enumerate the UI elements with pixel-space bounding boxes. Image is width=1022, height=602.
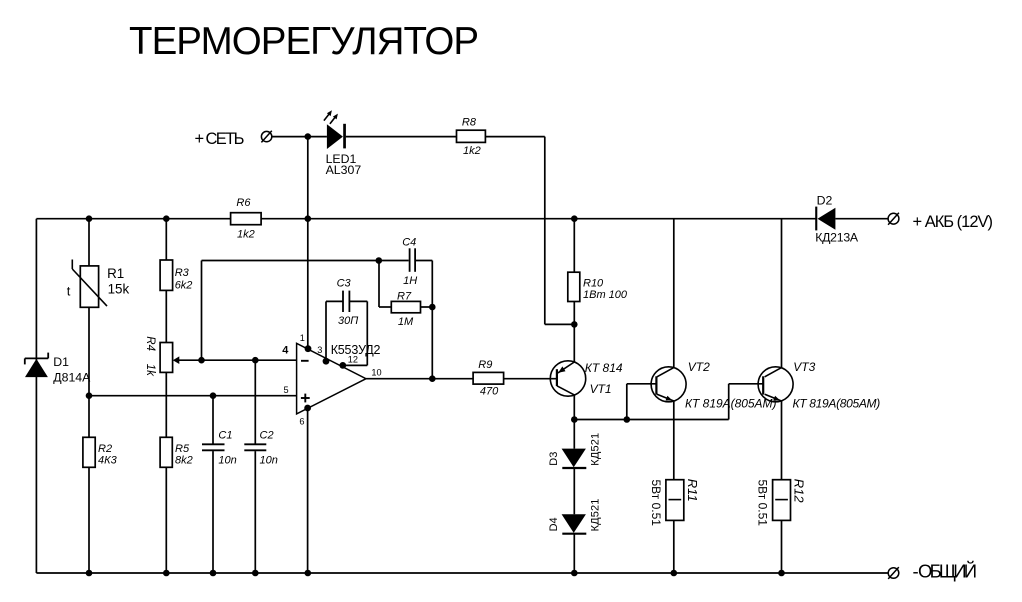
svg-text:R7: R7 (397, 291, 412, 303)
svg-text:R9: R9 (478, 359, 492, 371)
svg-text:VT1: VT1 (590, 382, 612, 396)
svg-text:КД521: КД521 (590, 433, 602, 466)
svg-text:AL307: AL307 (326, 163, 362, 177)
svg-text:R4: R4 (144, 336, 156, 351)
svg-text:30П: 30П (338, 315, 358, 327)
svg-text:D1: D1 (53, 355, 69, 369)
svg-text:5Вт 0.51: 5Вт 0.51 (756, 480, 770, 527)
svg-text:КТ 819А(805АМ): КТ 819А(805АМ) (793, 397, 881, 411)
svg-text:КТ 814: КТ 814 (585, 361, 623, 375)
svg-text:D3: D3 (548, 452, 560, 466)
svg-text:D2: D2 (817, 193, 833, 207)
svg-text:C3: C3 (337, 278, 352, 290)
svg-text:+ АКБ (12V): + АКБ (12V) (913, 213, 994, 231)
svg-text:D4: D4 (548, 517, 560, 531)
svg-text:R2: R2 (98, 443, 112, 455)
svg-text:10n: 10n (260, 454, 278, 466)
svg-text:- ОБЩИЙ: - ОБЩИЙ (913, 560, 978, 581)
svg-text:R5: R5 (175, 443, 190, 455)
svg-text:1М: 1М (398, 316, 414, 328)
svg-text:+ СЕТЬ: + СЕТЬ (195, 130, 245, 148)
svg-text:10: 10 (371, 368, 381, 378)
svg-text:15k: 15k (108, 282, 130, 297)
svg-text:VT2: VT2 (688, 360, 710, 374)
svg-text:6k2: 6k2 (175, 280, 193, 292)
svg-text:1Н: 1Н (403, 275, 417, 287)
svg-text:C4: C4 (402, 237, 416, 249)
svg-text:4: 4 (282, 345, 289, 357)
svg-text:8k2: 8k2 (175, 455, 193, 467)
svg-text:КТ 819А(805АМ): КТ 819А(805АМ) (685, 397, 777, 411)
svg-text:5Вт 0.51: 5Вт 0.51 (649, 480, 663, 527)
svg-text:ТЕРМОРЕГУЛЯТОР: ТЕРМОРЕГУЛЯТОР (129, 20, 479, 63)
svg-text:R3: R3 (175, 267, 190, 279)
svg-text:4К3: 4К3 (98, 455, 118, 467)
svg-text:VT3: VT3 (793, 360, 815, 374)
svg-text:10n: 10n (218, 454, 236, 466)
svg-text:R11: R11 (685, 479, 700, 502)
svg-text:C2: C2 (260, 430, 274, 442)
svg-text:3: 3 (317, 345, 322, 355)
svg-text:R10: R10 (583, 278, 604, 290)
svg-text:Д814А: Д814А (53, 371, 91, 385)
svg-text:R1: R1 (107, 266, 124, 281)
svg-text:6: 6 (299, 417, 304, 427)
svg-text:t: t (67, 284, 71, 299)
svg-text:R6: R6 (236, 197, 251, 209)
svg-text:1k2: 1k2 (237, 228, 255, 240)
svg-text:1k2: 1k2 (463, 145, 481, 157)
svg-text:1: 1 (300, 333, 305, 343)
svg-text:КД213А: КД213А (815, 231, 859, 245)
svg-text:C1: C1 (218, 430, 232, 442)
svg-text:1Вт 100: 1Вт 100 (583, 289, 628, 301)
svg-text:1k: 1k (144, 364, 156, 377)
svg-text:470: 470 (480, 385, 499, 397)
svg-text:12: 12 (348, 354, 358, 364)
svg-text:КД521: КД521 (590, 499, 602, 532)
svg-text:R8: R8 (462, 116, 477, 128)
svg-text:5: 5 (284, 385, 289, 395)
svg-text:R12: R12 (792, 479, 807, 504)
